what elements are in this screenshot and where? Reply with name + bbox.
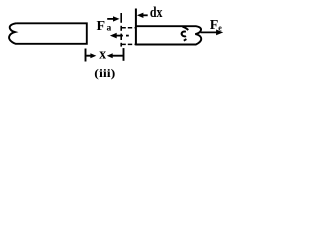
element bottom edge (dashed): [121, 43, 134, 45]
svg-text:a: a: [107, 24, 112, 34]
section line (dashed vertical at x): [120, 13, 122, 23]
break squiggle inside right bar: bottom dash: [184, 39, 187, 41]
break squiggle inside right bar: diagonal: [183, 27, 189, 30]
x dimension left arrow (points right): [86, 55, 91, 57]
Fa arrow (points left at section): [110, 33, 117, 39]
x dimension right arrow (points left): [107, 53, 113, 58]
x dimension right tick: [123, 48, 125, 61]
dx dimension left arrow: [107, 18, 114, 20]
Fe arrow (points right): [200, 31, 216, 33]
dx dimension right arrow: [137, 13, 144, 18]
svg-text:(iii): (iii): [94, 66, 115, 80]
break squiggle inside right bar: c-curl: [182, 32, 186, 37]
left bar body with broken left end: [9, 23, 87, 44]
right bar outline with broken right end: [136, 26, 201, 44]
element top edge (dashed): [121, 27, 134, 29]
svg-text:dx: dx: [150, 5, 163, 21]
right bar left edge (extended up as dimension tick): [135, 9, 137, 46]
svg-text:F: F: [97, 19, 106, 34]
svg-text:x: x: [99, 46, 107, 62]
x dimension left tick: [85, 49, 87, 62]
